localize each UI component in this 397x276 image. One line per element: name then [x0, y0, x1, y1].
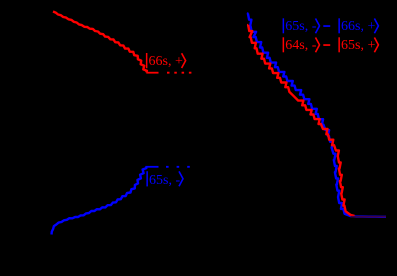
svg-text:65s, -: 65s, - — [285, 19, 316, 34]
asymptote dash 66s+ (red dashed) — [146, 72, 158, 74]
difference curve red right panel — [248, 25, 354, 216]
asymptote dots 66s+ — [167, 72, 192, 74]
asymptote dash 65s- (blue dashed) — [145, 166, 158, 168]
curve 65s- left panel (blue solid) — [52, 167, 147, 235]
svg-text:65s, +: 65s, + — [341, 38, 375, 53]
curve 66s+ left panel (red solid) — [53, 12, 147, 73]
legend blue: |65s,-> - |66s,+> — [283, 18, 379, 34]
difference curve blue right panel — [248, 14, 386, 217]
svg-text:65s, -: 65s, - — [149, 173, 180, 188]
legend red: |64s,-> - |65s,+> — [283, 37, 379, 53]
overlap tail (purple) — [351, 216, 387, 218]
label ket |66s,+> — [146, 53, 186, 69]
asymptote dots 65s- — [166, 166, 190, 168]
label ket |65s,-> — [146, 171, 183, 188]
svg-text:66s, +: 66s, + — [341, 19, 375, 34]
svg-text:64s, -: 64s, - — [285, 38, 316, 53]
svg-text:66s, +: 66s, + — [149, 54, 183, 69]
